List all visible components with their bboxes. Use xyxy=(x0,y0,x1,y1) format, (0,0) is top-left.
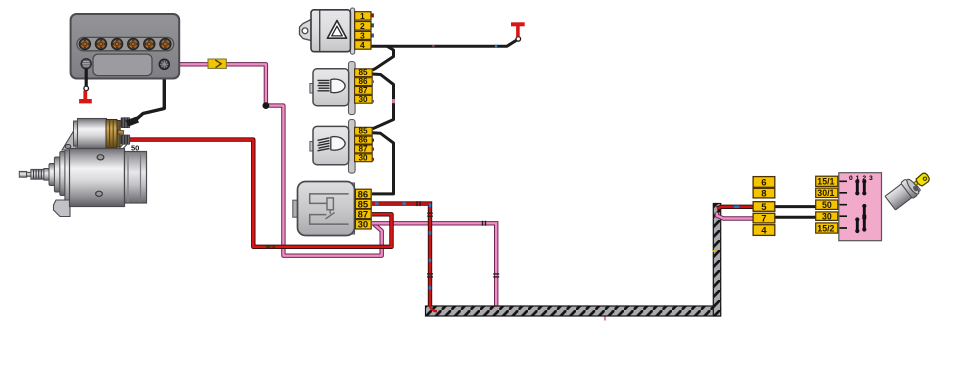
svg-text:3: 3 xyxy=(360,31,365,41)
battery cells xyxy=(79,38,171,49)
relay K1 pin 86 xyxy=(355,77,374,86)
starter M1 xyxy=(19,117,146,217)
svg-text:1: 1 xyxy=(360,11,365,21)
svg-text:85: 85 xyxy=(359,68,369,77)
wire connector 5 to switch 50 (black) xyxy=(775,205,816,208)
svg-text:87: 87 xyxy=(359,86,369,95)
svg-text:30: 30 xyxy=(822,212,832,222)
solenoid xyxy=(74,121,79,146)
key xyxy=(912,172,931,190)
svg-text:86: 86 xyxy=(359,136,369,145)
harness tick (pink) xyxy=(604,308,606,321)
front bracket xyxy=(49,164,55,186)
foot xyxy=(54,200,71,217)
svg-text:50: 50 xyxy=(131,144,139,153)
wire relay 87 to starter terminal 50 (red) xyxy=(129,140,392,247)
solenoid terminals xyxy=(121,117,130,128)
svg-text:30: 30 xyxy=(358,220,369,231)
svg-text:15/1: 15/1 xyxy=(817,177,834,187)
key cylinder xyxy=(884,176,922,211)
svg-text:86: 86 xyxy=(359,77,369,86)
svg-text:30/1: 30/1 xyxy=(817,188,834,198)
ground xyxy=(79,69,92,102)
wire harness to pin 7 (pink) xyxy=(717,213,753,219)
fuse F1 xyxy=(208,59,226,68)
svg-text:30: 30 xyxy=(359,153,369,162)
hazard pin 4 xyxy=(355,40,371,50)
relay K3 pin 86 xyxy=(355,189,371,200)
svg-text:6: 6 xyxy=(761,177,766,188)
ignition switch contact diagram xyxy=(839,173,882,241)
ignition switch connector xyxy=(816,176,838,233)
svg-text:4: 4 xyxy=(761,226,767,237)
connector X1 xyxy=(753,177,775,237)
hazard switch S1 xyxy=(300,8,355,54)
relay K1 pin 87 xyxy=(355,86,373,95)
wire relay 85 to harness (red-blue) xyxy=(372,204,430,307)
wire connector 7 to switch 30 (black) xyxy=(775,216,816,219)
harness sheath vertical xyxy=(713,204,720,317)
wire battery plus to fuse and relay 30 (pink) xyxy=(169,64,381,255)
wire battery plus to starter (black) xyxy=(131,69,164,124)
relay K1 pin 85 xyxy=(355,68,373,77)
relay K1 high beam xyxy=(310,62,355,115)
svg-text:30: 30 xyxy=(359,95,369,104)
svg-text:7: 7 xyxy=(761,214,766,225)
svg-text:5: 5 xyxy=(761,202,767,213)
battery negative terminal xyxy=(81,59,91,69)
wire entry marks on sheath xyxy=(430,305,437,312)
svg-text:8: 8 xyxy=(761,189,766,200)
relay K2 low beam xyxy=(310,120,355,174)
svg-text:15/2: 15/2 xyxy=(817,223,834,233)
svg-text:50: 50 xyxy=(822,200,832,210)
harness sheath horizontal xyxy=(426,306,721,316)
battery positive terminal xyxy=(159,59,169,69)
terminal T symbol xyxy=(511,24,525,41)
relay K2 pin 85 xyxy=(355,127,373,136)
junction dot xyxy=(263,102,270,109)
wire relay 30 to harness (pink) xyxy=(372,223,496,306)
main relay K3 xyxy=(293,182,355,236)
svg-text:2: 2 xyxy=(360,21,365,31)
battery GB1 xyxy=(71,14,180,79)
contact bars xyxy=(855,179,866,233)
svg-text:4: 4 xyxy=(360,40,365,50)
relay K2 pin 87 xyxy=(355,144,374,153)
svg-text:85: 85 xyxy=(359,127,369,136)
hazard pin 2 xyxy=(355,21,374,31)
relay K3 pin 85 xyxy=(355,199,371,210)
hazard pin 3 xyxy=(355,31,374,41)
svg-text:87: 87 xyxy=(358,209,369,220)
black trunk wire (relays supply) xyxy=(371,40,516,194)
shaft xyxy=(19,171,26,177)
wire harness to pin 5 (red-blue) xyxy=(717,207,753,209)
relay K3 pin 30 xyxy=(355,220,371,231)
solenoid bracket xyxy=(62,127,76,150)
svg-text:87: 87 xyxy=(359,144,369,153)
hazard pin 1 xyxy=(355,11,374,21)
main body xyxy=(70,149,125,207)
relay K3 pin 87 xyxy=(355,209,371,220)
relay K1 pin 30 xyxy=(355,95,374,104)
relay K2 pin 30 xyxy=(355,153,374,162)
relay K2 pin 86 xyxy=(355,136,374,145)
junction ticks xyxy=(417,201,499,277)
